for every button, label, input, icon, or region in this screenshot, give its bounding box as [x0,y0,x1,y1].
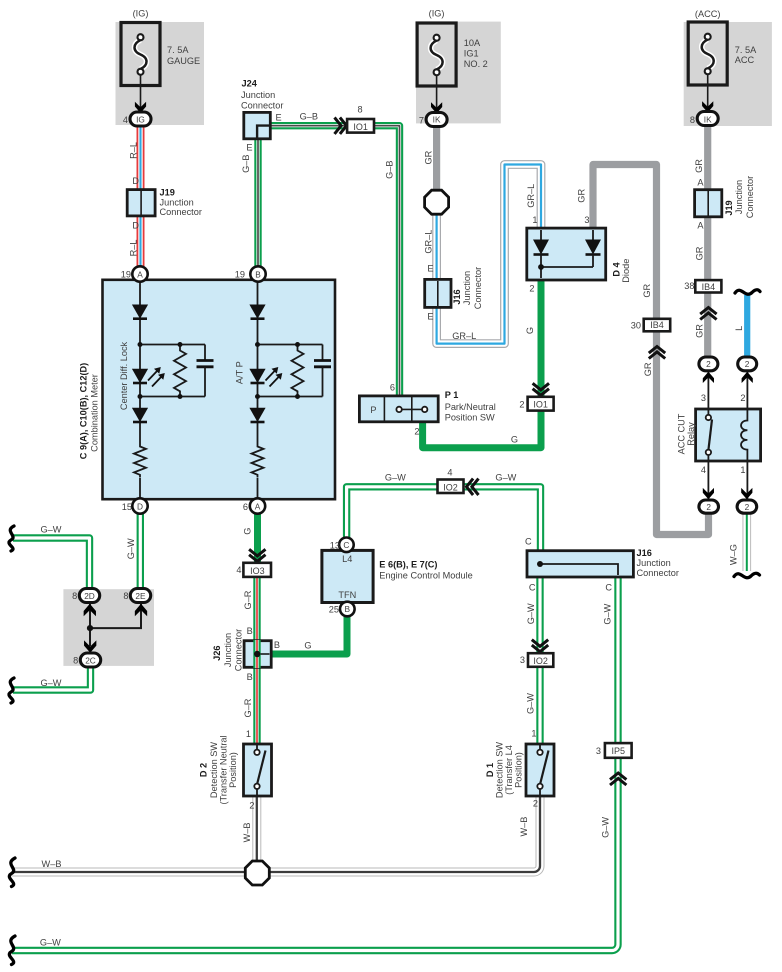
svg-text:E: E [246,143,252,153]
svg-text:B: B [255,269,261,279]
wire G-R: IO3 through J26 to detection switch D2 pin 1 [256,564,258,745]
svg-text:8: 8 [357,105,362,115]
svg-text:IP5: IP5 [611,746,625,756]
svg-text:C: C [605,582,612,592]
svg-text:13: 13 [330,540,340,550]
svg-text:2: 2 [529,284,534,294]
svg-text:G–W: G–W [526,603,536,624]
wire G: meter pin A to IO3 [254,513,261,562]
meter pin circle B (19) [250,266,265,281]
break symbol left G-W bus [9,936,15,965]
svg-text:C: C [343,540,349,550]
svg-text:6: 6 [243,502,248,512]
svg-text:2: 2 [745,359,750,369]
wire GR-L: octagon node through J16 to diode D4 pin 1 [437,165,541,344]
fuse 7.5A ACC [688,22,727,126]
break symbol W-G wire [734,573,760,577]
svg-text:8: 8 [72,591,77,601]
labels: ECM [329,540,473,615]
break symbol left W-B bus [9,858,15,887]
svg-text:(Transfer L4: (Transfer L4 [504,745,514,795]
connector box IO2 (3) [528,653,553,667]
labels: P1 switch [370,383,518,445]
svg-text:2: 2 [740,393,745,403]
labels: ACC fuse column [676,9,757,565]
svg-text:2: 2 [533,799,538,809]
engine control module ECM [322,550,373,602]
svg-text:8: 8 [690,115,695,125]
svg-text:TFN: TFN [338,590,356,600]
connector box IP5 [605,743,632,758]
svg-text:R–L: R–L [128,142,138,159]
svg-text:Connector: Connector [160,207,202,217]
svg-text:7. 5A: 7. 5A [735,45,757,55]
svg-text:3: 3 [584,215,589,225]
svg-text:IO1: IO1 [533,399,548,409]
labels: R-L wire and J19 left [121,142,202,279]
svg-text:G: G [525,327,535,334]
labels: IG1 fuse column [419,9,488,342]
svg-text:2: 2 [414,426,419,436]
svg-text:30: 30 [631,320,641,330]
svg-text:GR: GR [694,246,704,260]
wire W-B: detection switch D2 pin 2 to octagon node [256,795,258,861]
svg-text:GR: GR [642,283,652,297]
svg-text:1: 1 [246,729,251,739]
junction connector J16 lower [527,551,633,577]
svg-text:Position): Position) [514,752,524,788]
svg-text:IG1: IG1 [464,49,479,59]
diode D4 [527,228,606,280]
relay pin 2 line with arrow and oval 2 [738,357,757,409]
labels: D1 detection switch [485,742,538,837]
svg-text:E: E [276,113,282,123]
svg-text:B: B [247,672,253,682]
svg-text:3: 3 [701,393,706,403]
svg-text:15: 15 [122,502,132,512]
svg-text:GR: GR [694,324,704,338]
svg-text:IG: IG [136,115,145,125]
svg-text:G–W: G–W [41,524,62,534]
svg-text:1: 1 [532,215,537,225]
link lines 2D 2E 2C with arrows [84,604,148,653]
svg-text:4: 4 [701,465,706,475]
svg-text:G–B: G–B [241,155,251,173]
svg-text:Center Diff. Lock: Center Diff. Lock [119,341,129,410]
wire W-B: octagon node to detection switch D1 pin 2 [269,795,540,872]
shaded background box (IG gauge fuse) [116,22,205,125]
svg-text:G–W: G–W [495,472,516,482]
svg-text:GR: GR [694,159,704,173]
svg-text:G: G [511,434,518,444]
svg-text:G–W: G–W [385,472,406,482]
wire G-B: junction J24 to IO1 to P1 pin 6 [270,126,400,397]
svg-text:(IG): (IG) [133,9,149,19]
svg-text:Detection SW: Detection SW [209,742,219,798]
svg-text:4: 4 [236,565,241,575]
svg-text:8: 8 [123,591,128,601]
svg-text:B: B [247,626,253,636]
shaded background box (IG1 fuse) [416,22,501,124]
svg-text:G–W: G–W [40,938,61,948]
svg-text:Position SW: Position SW [445,413,495,423]
wire G-W: J16 to IP5 to bottom bus [12,576,618,951]
break symbol L wire [735,290,760,294]
svg-text:G: G [243,528,253,535]
oval connector 2C [80,653,100,667]
svg-text:G–W: G–W [603,603,613,624]
svg-text:L4: L4 [342,554,352,564]
svg-text:W–G: W–G [728,544,738,565]
labels: 2D 2E 2C group [41,524,147,688]
junction connector J19 left [127,190,155,216]
wire G-W: IO2 to junction J16 [464,487,541,552]
connector box IO1 (2) [528,397,554,411]
wire G-W: oval 2C to left break [13,666,91,690]
junction connector J16 upper [425,279,451,307]
svg-text:G: G [304,641,311,651]
svg-text:IO1: IO1 [353,122,368,132]
svg-text:Junction: Junction [241,90,275,100]
svg-text:Park/Neutral: Park/Neutral [445,402,496,412]
svg-text:J24: J24 [242,79,258,89]
labels: J24 and G-B wires [235,79,395,280]
wire R-L: fuse IG to combination meter pin A [140,124,142,267]
wire G-W: J16 through IO2 to detection switch D1 pin 1 [539,576,541,745]
svg-text:W–B: W–B [519,817,529,837]
svg-text:GR–L: GR–L [526,184,536,208]
connector box IO3 [243,563,271,577]
svg-text:Detection SW: Detection SW [494,742,504,798]
svg-text:IO2: IO2 [443,482,458,492]
labels: J16 lower and branches [520,537,679,739]
labels: D4 diode area [519,184,631,410]
meter pin circle A (19) [132,266,147,281]
wire W-G: oval 2 below relay pin 1 to break [746,512,748,571]
svg-text:(ACC): (ACC) [695,9,721,19]
wire GR: diode D4 pin 3 loop to ACC cut relay pin 4 [593,165,709,535]
svg-text:Relay: Relay [686,422,696,446]
svg-text:ACC CUT: ACC CUT [676,413,686,454]
svg-text:G–W: G–W [126,538,136,559]
svg-text:G–R: G–R [243,590,253,609]
wire G-W: meter pin D to oval 2E [139,513,141,590]
svg-text:L: L [734,326,744,331]
svg-text:2E: 2E [135,591,146,601]
svg-text:A: A [255,501,261,511]
ECM pin circle B (25) [340,602,355,617]
svg-text:Connector: Connector [473,267,483,309]
wire G-W: ECM pin 13 to IO2 [347,487,438,538]
svg-text:C: C [529,582,536,592]
svg-text:4: 4 [123,115,128,125]
oval connector 2E [130,589,150,603]
svg-text:GR: GR [423,150,433,164]
break symbol left G-W upper [9,526,14,551]
labels: D2 detection switch [198,729,254,842]
svg-text:B: B [345,604,351,614]
chevron from IP5 [610,773,626,785]
relay pin 1 line with arrow and oval 2 [737,461,757,513]
svg-text:Combination Meter: Combination Meter [90,374,100,452]
labels: G wire IO3 J26 column [212,528,312,718]
svg-text:J16: J16 [637,548,652,558]
chevron from IB4 (30) [649,347,665,359]
svg-text:Connector: Connector [234,629,244,671]
chevron to IO2 (4) [467,479,479,495]
svg-text:ACC: ACC [735,55,755,65]
break symbol left G-W lower [9,678,14,703]
combination meter box [103,280,336,499]
detection switch D1 (transfer L4 position) [526,744,554,796]
svg-text:GR–L: GR–L [452,331,476,341]
svg-text:J19: J19 [160,188,175,198]
svg-text:J16: J16 [452,289,462,304]
svg-text:D: D [132,221,139,231]
svg-text:IB4: IB4 [702,282,716,292]
labels: IG gauge fuse [123,9,200,126]
chevron to IO2 (3) [532,640,548,652]
svg-text:7: 7 [419,115,424,125]
svg-text:Connector: Connector [241,101,283,111]
svg-text:GR: GR [576,189,586,203]
wire G-W: left break to oval 2D [13,538,90,590]
svg-text:G–B: G–B [300,112,318,122]
detection switch D2 (transfer neutral position) [244,744,272,796]
svg-text:G–B: G–B [385,161,395,179]
ACC cut relay [696,409,761,461]
chevron to IO1 (8) [335,118,347,134]
svg-text:G–W: G–W [526,693,536,714]
meter pin circle D (15) [132,498,147,513]
svg-text:A: A [697,178,704,188]
svg-text:2: 2 [706,502,711,512]
svg-text:E: E [427,312,433,322]
svg-text:E 6(B), E 7(C): E 6(B), E 7(C) [379,560,437,570]
svg-text:1: 1 [740,465,745,475]
meter branch Center Diff Lock [132,280,214,506]
wire G: ECM pin 25 to junction J26 [270,615,347,654]
fuse 10A IG1 NO.2 [417,23,456,127]
svg-text:GR: GR [643,362,653,376]
connector box IO2 (4) [438,480,464,494]
svg-text:C 9(A), C10(B), C12(D): C 9(A), C10(B), C12(D) [79,363,89,459]
svg-text:IB4: IB4 [650,320,664,330]
svg-text:(IG): (IG) [429,9,445,19]
labels: IP5 column [596,746,625,838]
svg-text:3: 3 [520,655,525,665]
svg-text:8: 8 [73,656,78,666]
svg-text:Engine Control Module: Engine Control Module [379,571,472,581]
svg-text:Connector: Connector [637,568,679,578]
octagon node on GR wire [425,190,449,214]
ECM pin circle C (13) [339,538,354,553]
svg-text:G–R: G–R [243,698,253,717]
svg-text:D: D [137,501,143,511]
chevron from IB4 (38) [700,308,716,320]
wire G: diode D4 pin 2 through IO1 to P1 pin 2 [423,266,541,448]
svg-text:Diode: Diode [621,259,631,283]
wire GR: fuse IG1 to octagon node [433,124,440,192]
svg-text:2D: 2D [84,591,95,601]
shaded background box (ACC fuse) [684,22,772,126]
junction connector J26 [244,640,271,668]
svg-text:Junction: Junction [637,558,671,568]
svg-text:7. 5A: 7. 5A [167,45,189,55]
svg-text:19: 19 [121,270,131,280]
labels: combination meter [79,341,261,511]
svg-text:W–B: W–B [42,859,62,869]
svg-text:B: B [274,640,280,650]
octagon node on W-B bus [245,861,269,885]
svg-text:A: A [697,221,704,231]
svg-text:R–L: R–L [128,240,138,257]
svg-text:Junction: Junction [734,180,744,214]
oval connector 2D [79,589,99,603]
park/neutral position switch P1 [359,396,438,422]
wire G: junction J26 branch [257,651,272,658]
svg-text:Position): Position) [228,752,238,788]
svg-text:GAUGE: GAUGE [167,56,200,66]
labels: bottom buses [40,859,62,948]
svg-text:6: 6 [390,383,395,393]
svg-text:E: E [427,264,433,274]
svg-text:IK: IK [433,115,441,125]
shaded background box (2D 2E 2C connector group) [63,589,154,666]
wire W-B: left break to octagon node [12,871,246,873]
svg-text:2: 2 [249,801,254,811]
wire GR: fuse ACC through J19 and IB4 down to oval 2 [704,124,711,358]
svg-text:1: 1 [531,729,536,739]
svg-text:19: 19 [235,270,245,280]
svg-text:D 4: D 4 [611,261,621,276]
svg-text:25: 25 [329,605,339,615]
svg-text:2: 2 [706,359,711,369]
meter branch A/T P [249,280,331,506]
svg-text:D: D [132,176,139,186]
labels: IO2 4 row [385,467,517,492]
relay pin 3 line with arrow and oval 2 [699,357,718,409]
wire G-B: junction J24 down to meter pin B [257,138,259,267]
svg-text:10A: 10A [464,38,481,48]
svg-text:A/T P: A/T P [234,361,244,384]
svg-text:38: 38 [684,281,694,291]
svg-text:IO2: IO2 [533,656,548,666]
svg-text:Junction: Junction [160,198,194,208]
wire L: break to oval 2 above relay pin 2 [744,295,750,358]
junction connector J24 [244,112,270,138]
chevron to IO1 (2) [533,383,549,395]
relay pin 4 line with arrow and oval 2 [699,461,719,513]
meter pin circle A (6) [250,498,265,513]
svg-text:G–W: G–W [600,817,610,838]
svg-text:NO. 2: NO. 2 [464,59,488,69]
svg-text:2: 2 [519,399,524,409]
connector box IO1 (8) [347,119,374,133]
svg-text:P: P [370,405,376,415]
svg-text:(Transfer Neutral: (Transfer Neutral [218,735,228,804]
connector box IB4 (38) [695,280,721,292]
svg-text:Junction: Junction [462,271,472,305]
svg-text:2C: 2C [85,655,96,665]
svg-text:3: 3 [596,746,601,756]
svg-text:D 1: D 1 [485,763,495,777]
svg-text:Connector: Connector [745,176,755,218]
fuse 7.5A GAUGE [121,23,160,127]
svg-text:IO3: IO3 [250,566,265,576]
svg-text:J26: J26 [212,646,222,661]
labels: IB4 30 column [631,283,664,376]
svg-text:P 1: P 1 [445,390,459,400]
svg-text:J19: J19 [724,200,734,215]
svg-text:C: C [525,537,532,547]
svg-text:GR–L: GR–L [423,230,433,254]
svg-text:A: A [137,269,143,279]
svg-text:D 2: D 2 [198,763,208,777]
svg-text:4: 4 [447,467,452,477]
svg-text:2: 2 [745,502,750,512]
svg-text:IK: IK [704,115,712,125]
chevron to IO3 [249,549,265,561]
connector box IB4 (30) [644,319,671,332]
junction connector J19 right [695,190,722,217]
svg-text:G–W: G–W [41,678,62,688]
svg-text:Junction: Junction [223,633,233,667]
svg-text:W–B: W–B [242,822,252,842]
